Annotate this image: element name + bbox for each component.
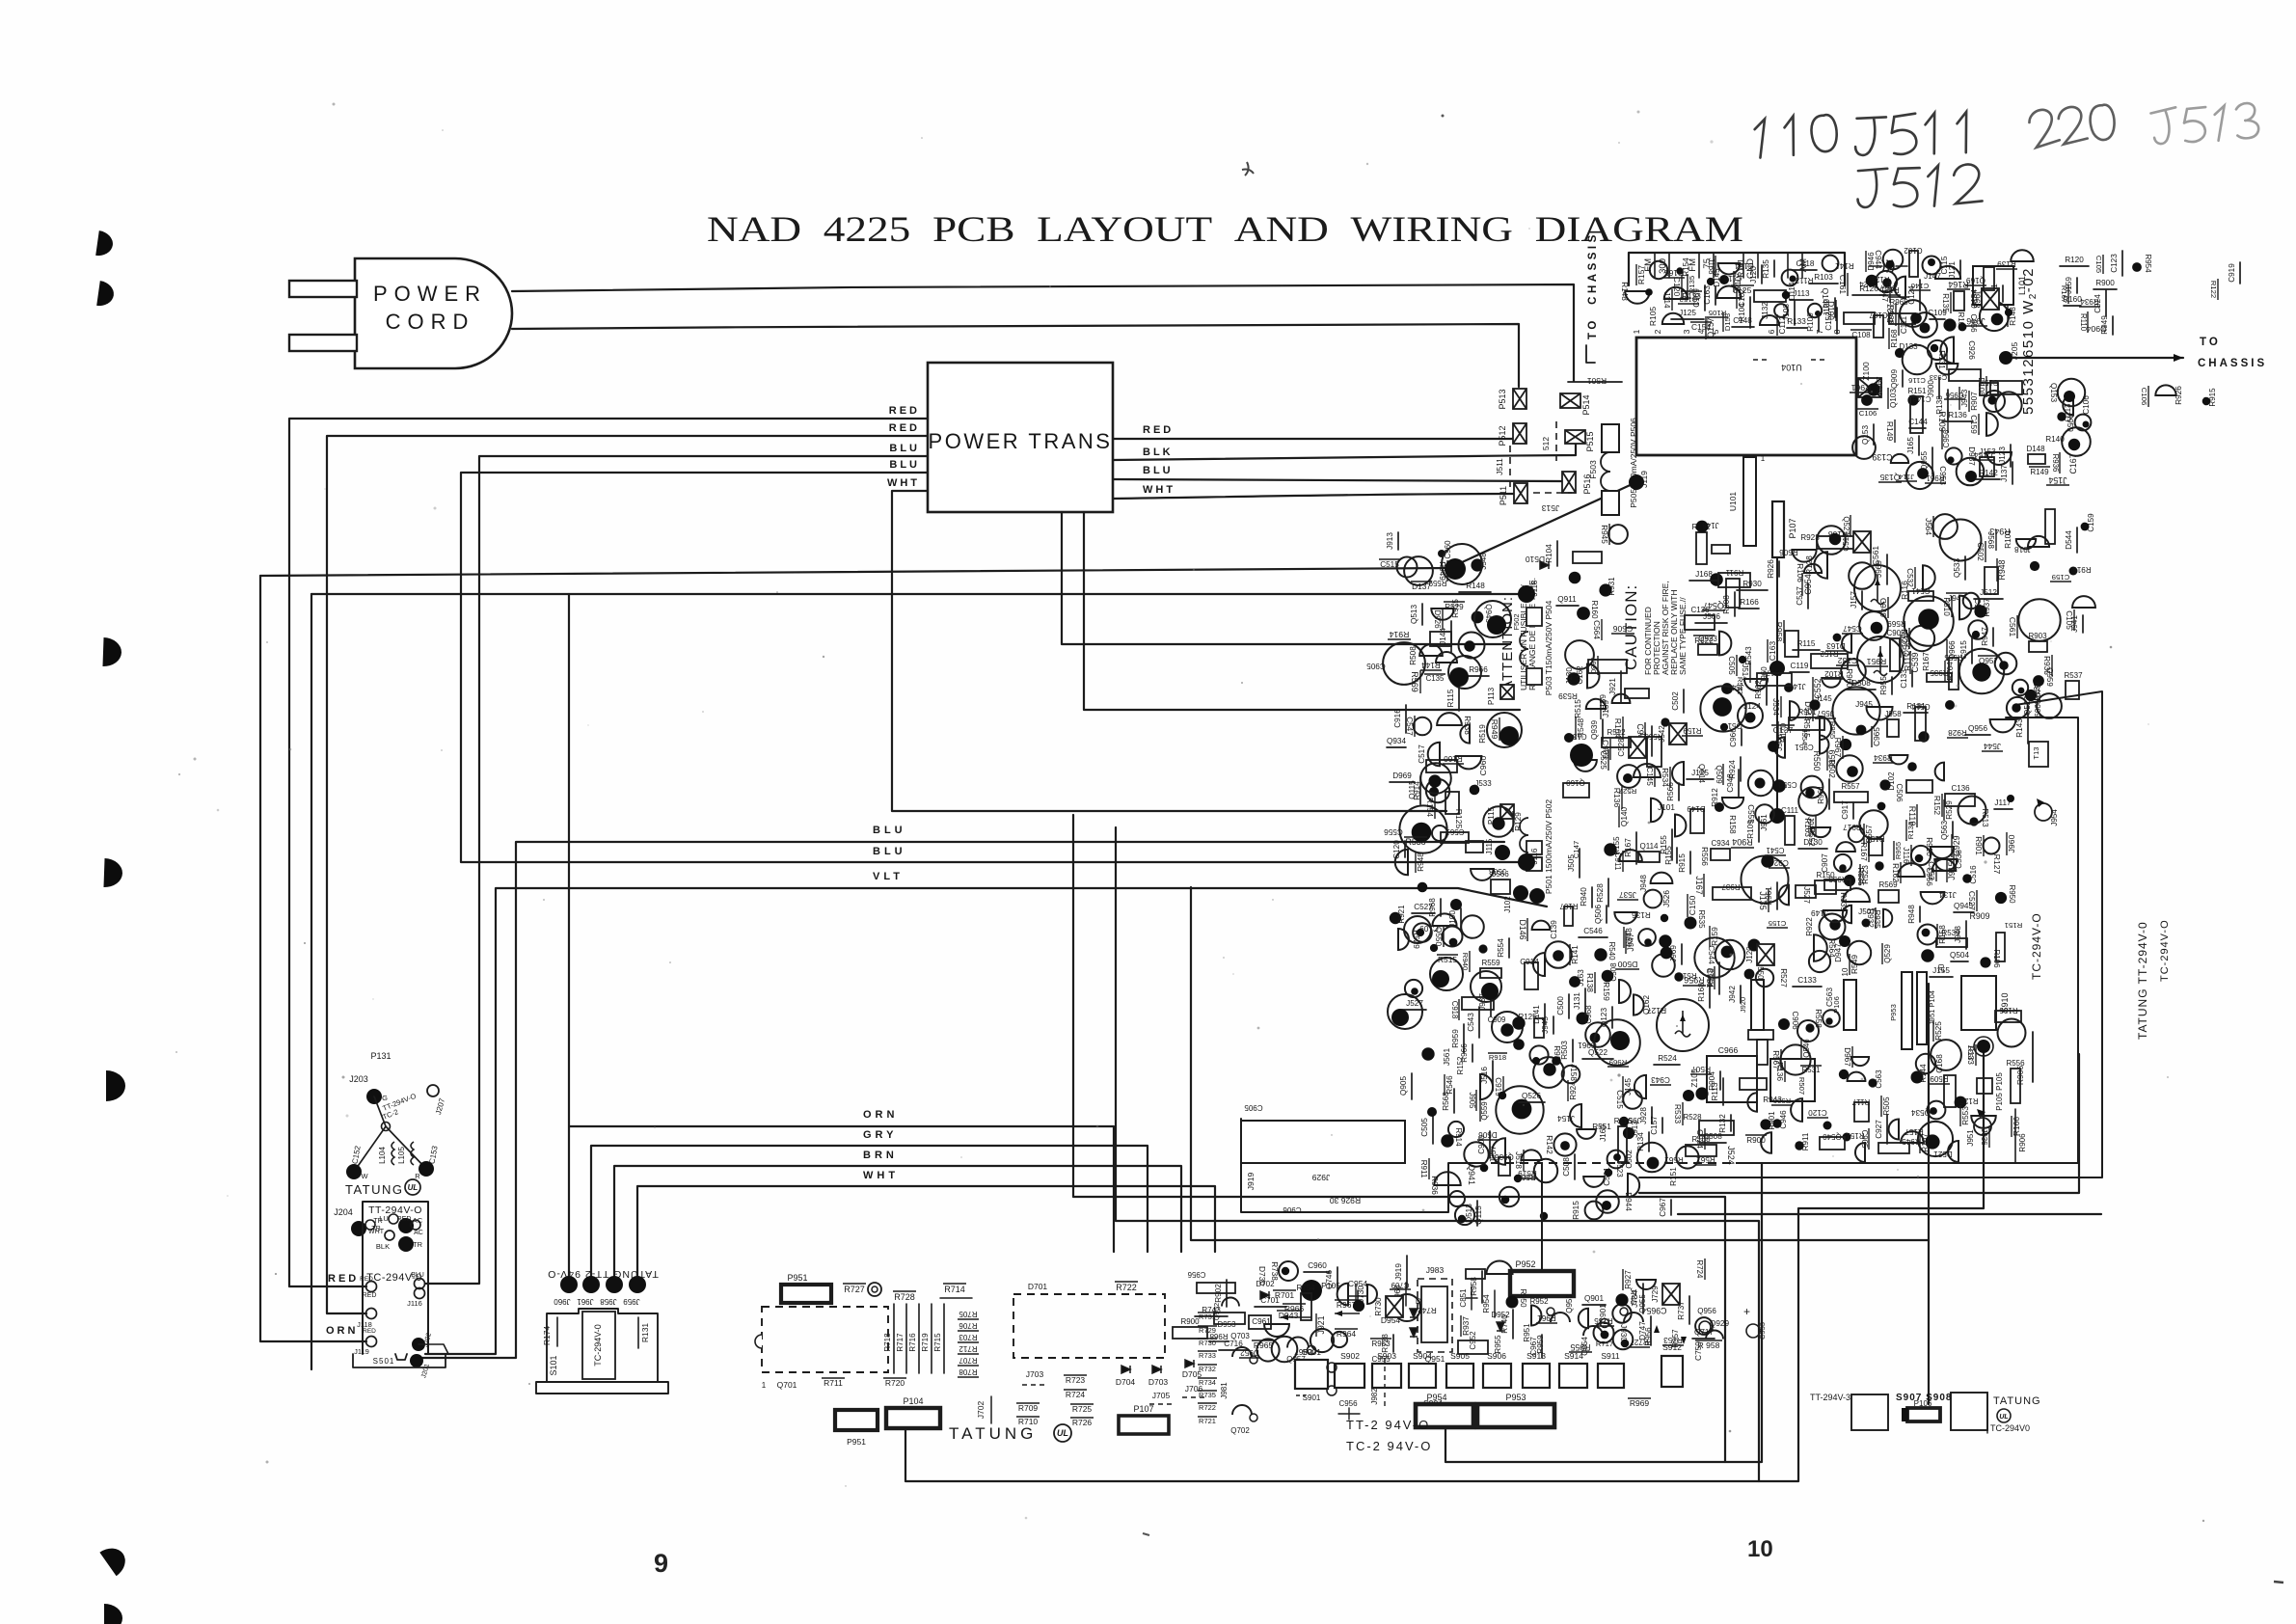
connector bar J920: [1751, 980, 1764, 1030]
diode D508: [1846, 689, 1876, 690]
svg-text:R924: R924: [1728, 760, 1737, 779]
svg-text:C508: C508: [1609, 962, 1618, 982]
svg-text:Q905: Q905: [1399, 1076, 1408, 1096]
junction J957: [1464, 1142, 1488, 1166]
resistor R914: [1426, 779, 1449, 802]
junction J566: [1491, 880, 1510, 894]
svg-text:R131: R131: [1906, 702, 1926, 711]
svg-text:BLU: BLU: [873, 846, 906, 857]
capacitor C946: [1496, 1086, 1543, 1133]
capacitor C952: [1499, 1187, 1519, 1206]
svg-text:R502: R502: [1827, 759, 1836, 778]
pad S901 pins: [1327, 1363, 1337, 1372]
resistor R938: [1437, 713, 1462, 725]
svg-text:R148: R148: [1620, 282, 1629, 301]
svg-text:C506: C506: [1613, 624, 1634, 634]
svg-text:J960: J960: [2007, 834, 2016, 853]
capacitor C544: [1405, 980, 1422, 997]
diode D542: [1790, 701, 1799, 720]
capacitor C956: [1958, 323, 1967, 332]
handwritten annotation 110: [1752, 113, 1838, 158]
resistor R121: [1866, 275, 1878, 287]
transistor Q153: [1873, 424, 1875, 445]
resistor R945: [1918, 1122, 1953, 1156]
svg-text:D703: D703: [1148, 1377, 1169, 1387]
resistor R931: [1599, 583, 1611, 596]
svg-text:D102: D102: [1887, 771, 1896, 791]
resistor R935: [1862, 919, 1871, 928]
resistor R103: [1809, 283, 1838, 284]
svg-text:RED: RED: [363, 1292, 377, 1299]
capacitor C546: [1579, 936, 1607, 938]
junction J121: [1959, 260, 1961, 279]
svg-text:BLK: BLK: [1143, 447, 1174, 458]
resistor R915: [1689, 852, 1691, 874]
diode D141: [1544, 1004, 1546, 1024]
capacitor C161: [1949, 369, 1981, 381]
resistor R938: [1840, 739, 1851, 750]
junction J530: [1492, 1012, 1523, 1042]
capacitor C515: [1397, 557, 1418, 578]
pad RED top: [389, 1214, 398, 1224]
capacitor C157: [1957, 458, 1985, 486]
svg-text:R922: R922: [1805, 917, 1814, 936]
svg-text:R151: R151: [1907, 387, 1927, 395]
junction J118 dot: [1518, 585, 1535, 603]
junction J130: [1587, 663, 1600, 688]
svg-text:C140: C140: [1911, 282, 1930, 290]
svg-text:R119: R119: [1907, 806, 1917, 826]
wire board drop 1: [1073, 815, 1725, 1462]
resistor R115: [1793, 649, 1820, 651]
svg-text:C556: C556: [1384, 827, 1403, 836]
resistor R125: [1512, 1016, 1525, 1029]
resistor R960: [1249, 1315, 1271, 1329]
resistor R515: [1710, 573, 1723, 586]
diode D133: [1895, 348, 1904, 358]
resistor R129: [1483, 806, 1514, 837]
resistor R165: [1650, 261, 1667, 279]
svg-text:10: 10: [1747, 1536, 1773, 1562]
capacitor C547: [1859, 611, 1888, 640]
fuse holder P503: [1526, 668, 1542, 685]
svg-text:WHT: WHT: [863, 1170, 899, 1181]
diode D114: [1782, 291, 1790, 299]
connector P514: [1560, 393, 1580, 408]
label R174: [556, 1317, 558, 1346]
svg-text:Q959: Q959: [2045, 667, 2054, 687]
svg-text:R943: R943: [1989, 527, 2010, 536]
svg-text:D904: D904: [2086, 324, 2106, 334]
capacitor C502: [1683, 690, 1685, 713]
svg-text:C502: C502: [1976, 542, 1985, 561]
svg-text:R109: R109: [1806, 312, 1815, 332]
IC U101 bar: [1743, 457, 1756, 546]
svg-text:R115: R115: [1446, 689, 1455, 707]
capacitor C528: [1629, 737, 1646, 758]
svg-text:R505: R505: [1882, 1096, 1891, 1116]
svg-text:UL: UL: [1999, 1414, 2008, 1421]
svg-text:R525: R525: [1934, 1021, 1943, 1041]
svg-text:R733: R733: [1199, 1351, 1216, 1360]
svg-text:C150: C150: [1688, 896, 1697, 916]
svg-text:GRY: GRY: [863, 1129, 897, 1141]
junction J745: [1615, 1293, 1628, 1306]
resistor R138: [1947, 390, 1949, 420]
svg-text:R501: R501: [1587, 376, 1607, 386]
svg-text:C147: C147: [1572, 841, 1580, 859]
capacitor C526: [1449, 1191, 1465, 1206]
resistor R106: [1980, 957, 1990, 967]
transistor Q945: [1954, 911, 1974, 913]
resistor R159: [1619, 980, 1631, 1003]
resistor R957: [1466, 1269, 1485, 1279]
svg-text:J951: J951: [1966, 1129, 1975, 1147]
svg-text:J149: J149: [1811, 908, 1828, 917]
capacitor C505: [1432, 1112, 1434, 1144]
svg-text:C118: C118: [1796, 259, 1815, 268]
diode D947: [1848, 941, 1871, 964]
junction J954: [1619, 1117, 1629, 1126]
svg-text:1: 1: [1761, 454, 1766, 463]
TC-294V-0 column: [582, 1312, 615, 1379]
resistor R524: [1654, 1064, 1680, 1066]
transistor Q953: [1551, 1313, 1570, 1322]
transistor Q936: [1936, 364, 1958, 374]
power cord prong 2: [289, 335, 357, 351]
capacitor C110: [1944, 1075, 1956, 1107]
capacitor C558: [1712, 545, 1730, 554]
wire P953 to board bottom: [1445, 1163, 1762, 1462]
power cord wire lower: [512, 324, 1519, 387]
fuse F503 holder upper: [1602, 424, 1619, 452]
svg-text:C106: C106: [1859, 409, 1877, 418]
antenna terminal pin 3: [1698, 253, 1700, 278]
svg-text:POWER: POWER: [373, 282, 487, 306]
resistor R167: [1635, 832, 1637, 864]
resistor R719: [931, 1304, 932, 1373]
resistor R515: [1820, 717, 1831, 740]
dashed net J511: [1509, 446, 1511, 487]
junction J100: [1834, 298, 1836, 317]
resistor R127: [1955, 1096, 1967, 1109]
capacitor C110: [1625, 689, 1649, 698]
resistor R167: [1836, 842, 1855, 852]
connector P511: [1514, 483, 1527, 503]
svg-text:C561: C561: [2008, 617, 2017, 637]
svg-text:C926: C926: [1967, 340, 1976, 360]
connector P951: [781, 1285, 831, 1303]
resistor R166: [1683, 1090, 1694, 1101]
resistor R146: [1569, 572, 1581, 584]
junction J115 dot: [1495, 845, 1510, 860]
resistor R937: [1713, 887, 1751, 900]
resistor R923: [1817, 526, 1846, 555]
resistor R946: [1797, 1020, 1819, 1042]
diode D969: [1390, 781, 1415, 783]
diode D161: [2002, 285, 2004, 302]
transistor Q939: [1602, 719, 1604, 741]
resistor R738: [1279, 1261, 1298, 1281]
transistor Q547: [1552, 1056, 1561, 1066]
svg-text:J145: J145: [1815, 694, 1832, 703]
resistor R113: [1722, 1078, 1724, 1105]
stray dot: [1442, 115, 1445, 118]
capacitor C557: [1849, 826, 1864, 842]
capacitor C907: [1834, 854, 1851, 872]
pad AC: [398, 1218, 414, 1233]
svg-text:R159: R159: [1711, 927, 1719, 946]
svg-text:U104: U104: [1781, 363, 1802, 372]
capacitor C152: [1836, 308, 1838, 334]
resistor R902: [1226, 1280, 1228, 1307]
svg-text:D967: D967: [1843, 1047, 1851, 1067]
svg-text:R950: R950: [2008, 884, 2016, 904]
svg-text:R961: R961: [1850, 383, 1871, 392]
binder punch mark 2: [96, 281, 115, 308]
resistor R155: [1676, 848, 1678, 863]
switch S905: [1446, 1364, 1473, 1388]
junction J506: [1768, 741, 1779, 752]
svg-text:Q702: Q702: [1230, 1426, 1250, 1435]
svg-text:R742: R742: [1418, 1306, 1437, 1314]
svg-text:J963: J963: [1972, 289, 1982, 308]
IC Z105: [1707, 1056, 1757, 1102]
svg-text:J204: J204: [334, 1207, 353, 1217]
svg-text:P953: P953: [1889, 1004, 1898, 1021]
svg-text:D969: D969: [1392, 771, 1412, 780]
svg-text:C544: C544: [1707, 945, 1715, 964]
resistor R911: [1795, 1141, 1803, 1150]
svg-text:C157: C157: [1980, 378, 1999, 387]
svg-text:J705: J705: [1152, 1391, 1171, 1400]
resistor R948: [1638, 929, 1656, 946]
capacitor C920: [1461, 915, 1484, 938]
svg-text:J516: J516: [1480, 1067, 1489, 1084]
svg-text:C907: C907: [1821, 853, 1829, 873]
svg-text:J137: J137: [2000, 465, 2009, 482]
svg-text:C139: C139: [1872, 452, 1892, 462]
diode D146: [1413, 923, 1432, 942]
svg-text:R724: R724: [1066, 1390, 1086, 1399]
resistor R551: [1577, 1129, 1596, 1139]
resistor R942: [2007, 795, 2014, 802]
svg-text:R915: R915: [1678, 853, 1687, 873]
transistor Q959: [2033, 675, 2044, 687]
svg-text:R531: R531: [1802, 1066, 1821, 1074]
resistor R142: [1976, 478, 2000, 480]
wire VLT to J202: [425, 888, 1547, 1354]
pad P105 big dot: [1301, 1280, 1322, 1301]
handwritten annotation J511: [1854, 112, 1972, 157]
wire BLU long (lower): [421, 842, 1504, 1358]
capacitor C514: [1915, 707, 1926, 741]
svg-text:R937: R937: [1461, 1316, 1471, 1336]
svg-text:C506: C506: [1895, 783, 1904, 802]
diode D704: [1121, 1366, 1130, 1373]
transistor Q113: [2057, 412, 2066, 420]
connector P515: [1565, 430, 1585, 444]
svg-text:R718: R718: [883, 1333, 892, 1352]
svg-text:J116: J116: [407, 1299, 422, 1308]
svg-text:BLU: BLU: [1143, 465, 1174, 476]
svg-text:R566: R566: [1666, 782, 1675, 801]
capacitor C906: [1778, 1018, 1790, 1030]
svg-text:R900: R900: [2095, 279, 2115, 287]
svg-text:J144: J144: [1439, 628, 1447, 645]
capacitor C532: [1923, 565, 1935, 589]
svg-text:C965: C965: [1646, 1306, 1666, 1315]
svg-text:R116: R116: [1614, 1117, 1633, 1125]
capacitor C914: [1715, 802, 1724, 812]
resistor R155: [1604, 843, 1616, 855]
svg-text:J537: J537: [1619, 890, 1636, 899]
svg-text:J168: J168: [1695, 570, 1713, 579]
resistor R962: [1766, 675, 1768, 705]
svg-text:J125: J125: [1734, 285, 1752, 295]
svg-text:R724: R724: [1695, 1260, 1704, 1280]
capacitor C946: [1772, 1119, 1781, 1127]
transistor Q156: [1445, 792, 1459, 814]
resistor R521: [1909, 626, 1934, 651]
transistor Q157: [1432, 826, 1447, 841]
transistor Q937: [1798, 787, 1827, 816]
pad P105: [1977, 1078, 1992, 1094]
svg-text:R904: R904: [1708, 1071, 1716, 1091]
svg-text:L105: L105: [397, 1147, 406, 1164]
antenna terminal pin 7: [1787, 253, 1789, 278]
svg-text:J919: J919: [1246, 1173, 1256, 1191]
svg-text:TO: TO: [2200, 337, 2221, 348]
capacitor C169: [1704, 285, 1706, 311]
svg-text:R524: R524: [1658, 1054, 1677, 1063]
transistor Q106: [1430, 632, 1451, 646]
svg-text:C108: C108: [1851, 331, 1871, 339]
svg-text:RED: RED: [363, 1328, 376, 1335]
pad RED J119a: [366, 1337, 377, 1347]
svg-text:Q955: Q955: [1920, 451, 1929, 471]
capacitor C967: [1272, 1337, 1298, 1363]
svg-text:J114: J114: [1662, 292, 1671, 309]
main board right edge inner: [1241, 717, 2078, 1212]
svg-text:C517: C517: [1842, 532, 1850, 552]
svg-text:R926 30: R926 30: [1330, 1196, 1361, 1205]
wire ORN to S101 J960: [569, 594, 1114, 1285]
svg-text:R556: R556: [2006, 1059, 2025, 1068]
svg-text:R969: R969: [1630, 1398, 1650, 1408]
binder punch mark 6: [99, 1542, 131, 1576]
svg-text:U101: U101: [1728, 492, 1738, 512]
resistor R134: [1648, 1132, 1650, 1151]
svg-text:R934: R934: [2080, 297, 2099, 306]
resistor R910: [1931, 847, 1954, 858]
capacitor C520 big: [1474, 601, 1511, 637]
svg-text:C905: C905: [1366, 662, 1386, 670]
resistor R137: [1928, 340, 1947, 360]
svg-text:SAME TYPE FUSE.//: SAME TYPE FUSE.//: [1678, 597, 1688, 675]
resistor R947: [1992, 628, 1994, 646]
antenna terminal pin 8: [1801, 253, 1803, 278]
svg-text:J930: J930: [1619, 1324, 1628, 1341]
svg-text:R135: R135: [1688, 276, 1696, 293]
connector P512: [1513, 423, 1526, 444]
svg-text:C546: C546: [1583, 927, 1603, 935]
svg-text:TT-294V-3: TT-294V-3: [1810, 1393, 1850, 1402]
capacitor C550: [1772, 779, 1786, 793]
transistor Q914: [1672, 762, 1684, 785]
svg-text:WHT: WHT: [1143, 484, 1175, 496]
junction J204: [351, 1221, 366, 1236]
transistor Q517: [1720, 723, 1728, 731]
svg-text:R136: R136: [1632, 910, 1651, 919]
diode D927: [1900, 300, 1927, 327]
resistor R543: [1739, 656, 1746, 663]
junction J928: [1651, 1107, 1653, 1123]
svg-text:D701: D701: [1028, 1282, 1048, 1291]
svg-text:R555: R555: [1944, 653, 1963, 662]
svg-text:J905: J905: [1468, 1093, 1476, 1110]
junction J961 board: [1769, 808, 1785, 824]
svg-text:R164: R164: [1946, 662, 1955, 681]
capacitor C549: [2012, 680, 2028, 695]
junction J508: [1471, 869, 1494, 880]
svg-text:C155: C155: [1769, 919, 1787, 928]
svg-text:R109: R109: [1937, 411, 1947, 431]
resistor R954: [2132, 262, 2142, 272]
svg-text:C515: C515: [1615, 1090, 1624, 1109]
switch S501 outline: [353, 1354, 446, 1367]
junction J505: [1579, 849, 1580, 878]
junction J154: [1570, 1104, 1581, 1127]
svg-text:R518: R518: [1707, 968, 1715, 988]
capacitor C956: [1898, 863, 1925, 877]
resistor R906b: [2014, 1109, 2016, 1162]
capacitor C905: [1588, 660, 1627, 673]
capacitor C901: [1612, 1304, 1631, 1322]
capacitor C118: [1793, 269, 1817, 271]
svg-text:R947: R947: [1981, 627, 1989, 646]
svg-text:R507: R507: [1797, 1077, 1806, 1095]
svg-text:Z100: Z100: [1861, 362, 1871, 381]
junction J945: [1866, 707, 1892, 720]
resistor R128: [1814, 552, 1827, 578]
svg-text:R728: R728: [1381, 1334, 1390, 1353]
svg-text:R728: R728: [894, 1292, 915, 1302]
junction J958: [1887, 719, 1899, 737]
capacitor C967: [1670, 1200, 1672, 1215]
resistor R527: [1756, 969, 1773, 987]
svg-text:R117: R117: [1851, 1097, 1870, 1106]
handwritten annotation J513: [2149, 101, 2259, 146]
resistor R934: [1890, 755, 1908, 764]
capacitor C149: [1430, 944, 1438, 952]
svg-text:R911: R911: [1419, 1160, 1428, 1178]
junction J168: [1689, 580, 1718, 582]
svg-text:R503: R503: [1560, 1041, 1569, 1060]
switch S901: [1295, 1360, 1328, 1389]
resistor R506: [1792, 550, 1816, 562]
main board bottom dashes: [1485, 1162, 1736, 1164]
svg-text:R740: R740: [1500, 1314, 1509, 1334]
resistor R951: [1935, 763, 1944, 781]
svg-text:R127: R127: [1959, 1096, 1979, 1105]
capacitor C917: [1852, 802, 1854, 819]
S101 board outline: [536, 1309, 668, 1394]
svg-text:CHASSIS: CHASSIS: [2198, 358, 2267, 369]
resistor R564: [1573, 552, 1602, 563]
pad J116b: [415, 1288, 425, 1299]
connector P115: [1500, 804, 1514, 819]
